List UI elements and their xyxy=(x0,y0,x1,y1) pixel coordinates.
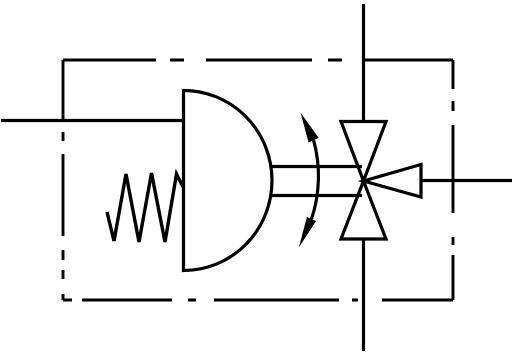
rotation arrow arc xyxy=(312,140,319,219)
ball valve upper triangle xyxy=(341,122,386,182)
bottom pipe line xyxy=(362,239,365,351)
rotation arrow top arrowhead xyxy=(301,113,319,143)
top pipe line xyxy=(362,4,365,122)
spring (spring-return) xyxy=(107,173,183,242)
drive shaft (double line) xyxy=(271,167,363,196)
actuator body U1 (semicircle, flat side left) xyxy=(184,91,273,271)
enclosure boundary left edge (dash-dot) xyxy=(62,60,65,300)
right actuation line xyxy=(421,179,512,182)
rotation arrow bottom arrowhead xyxy=(299,217,316,248)
enclosure boundary right edge (dash-dot) xyxy=(452,60,455,300)
enclosure boundary bottom edge (dash-dot) xyxy=(63,299,453,302)
enclosure boundary top edge (dash-dot) xyxy=(63,59,453,62)
actuation arrow (open triangle, tip at valve center) xyxy=(364,165,422,198)
pilot air input line (left) xyxy=(1,119,185,122)
ball valve lower triangle xyxy=(341,181,386,239)
